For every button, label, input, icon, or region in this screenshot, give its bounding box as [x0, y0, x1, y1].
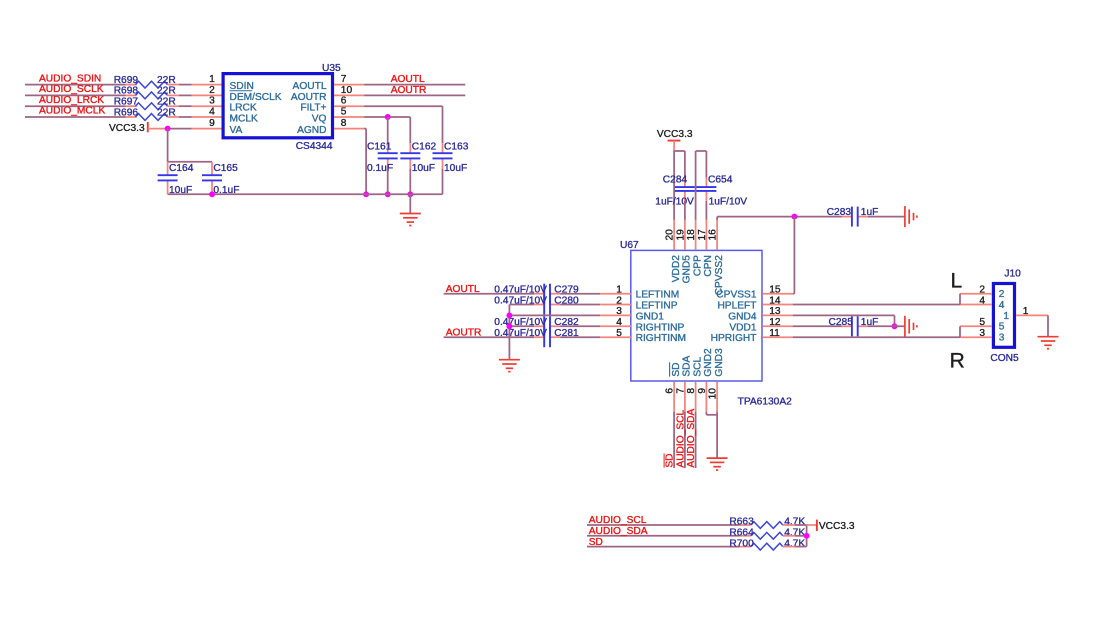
U35 value label CS4344	[296, 141, 333, 152]
svg-text:10uF: 10uF	[169, 185, 192, 196]
svg-text:0.47uF/10V: 0.47uF/10V	[494, 285, 547, 296]
svg-text:13: 13	[769, 306, 781, 317]
C279 value label	[494, 285, 547, 296]
svg-text:GND3: GND3	[714, 348, 725, 377]
svg-text:7: 7	[676, 388, 687, 394]
wire C161 to gnd bus	[387, 169, 389, 195]
capacitor C165 pins	[211, 162, 213, 195]
wire net AUDIO_SCLK	[25, 94, 137, 96]
U67 pin number 13	[769, 306, 781, 317]
resistor R700	[729, 538, 805, 550]
U67 pin name RIGHTINP	[636, 322, 685, 333]
U35 right pin 6 stub	[334, 105, 364, 107]
capacitor C285 pins	[842, 325, 868, 327]
J10 pin 4 stub	[960, 304, 992, 306]
U67 top pin 17 stub	[705, 220, 707, 250]
svg-text:0.47uF/10V: 0.47uF/10V	[494, 328, 547, 339]
wire AGND down	[364, 129, 366, 195]
capacitor C283 pins	[842, 216, 868, 218]
svg-text:0.47uF/10V: 0.47uF/10V	[494, 295, 547, 306]
U67 pin name LEFTINM	[636, 290, 680, 301]
wire to VCC tick	[807, 524, 817, 526]
wire net AUDIO_SCL (pullup)	[587, 524, 751, 526]
svg-text:AUDIO_MCLK: AUDIO_MCLK	[39, 106, 105, 117]
wire VDD1 to C285	[793, 325, 842, 327]
U35 pin number 10	[341, 85, 353, 96]
net label AOUTL	[391, 74, 425, 85]
svg-text:AUDIO_LRCK: AUDIO_LRCK	[39, 95, 104, 106]
svg-text:GND2: GND2	[703, 348, 714, 377]
svg-text:J10: J10	[1004, 268, 1021, 279]
C164 refdes label	[169, 163, 194, 174]
wire C161 hang	[387, 117, 389, 143]
junction node C162/bus	[407, 191, 413, 197]
svg-text:2: 2	[616, 295, 622, 306]
U67 pin name GND4	[728, 311, 757, 322]
capacitor C282	[544, 316, 550, 336]
C282 value label	[494, 317, 547, 328]
svg-text:AOUTL: AOUTL	[293, 81, 327, 92]
J10 inner pin 3	[999, 333, 1005, 344]
U67 SD pin overline	[669, 362, 671, 376]
U67 right pin 14 stub	[762, 304, 792, 306]
net label AOUTR	[391, 85, 427, 96]
svg-text:20: 20	[665, 229, 676, 241]
junction node R664/VCC	[804, 533, 810, 539]
capacitor C165	[202, 175, 222, 180]
wire C283 to ground	[868, 216, 905, 218]
U35 pin number 1	[209, 74, 215, 85]
wire net AUDIO_LRCK	[25, 105, 137, 107]
junction node GND4/C285	[892, 323, 898, 329]
U67 pin name CPN	[703, 255, 714, 277]
U35 pin number 5	[341, 106, 347, 117]
resistor R696	[114, 107, 176, 120]
U67 pin name VDD2	[671, 255, 682, 283]
U35 pin name VQ	[312, 113, 327, 124]
U35 pin name LRCK	[230, 103, 257, 114]
C161 refdes label	[367, 141, 392, 152]
U67 pin name GND5	[682, 255, 693, 284]
ground G5	[707, 458, 728, 470]
svg-text:0.1uF: 0.1uF	[213, 185, 239, 196]
wire VCC3.3 to U35 pin 9	[148, 128, 192, 130]
J10 pin 2 stub	[960, 293, 992, 295]
svg-text:VDD2: VDD2	[671, 255, 682, 283]
U35 right pin 10 stub	[334, 94, 364, 96]
U35 pin 4 stub	[192, 116, 222, 118]
U67 pin number 2	[616, 295, 622, 306]
U67 pin 3 stub	[600, 314, 631, 316]
capacitor C654 pins	[705, 177, 707, 201]
capacitor C280	[544, 295, 550, 315]
J10 pin number 1	[1023, 306, 1029, 317]
wire GND5 column lower	[684, 201, 686, 220]
svg-text:R700: R700	[729, 538, 754, 549]
capacitor C163 pins	[442, 143, 444, 168]
ground G6	[1038, 337, 1059, 349]
U35 right pin 8 stub	[334, 128, 364, 130]
svg-text:1uF/10V: 1uF/10V	[709, 197, 748, 208]
wire VCC stem	[673, 141, 675, 151]
svg-text:R664: R664	[729, 528, 754, 539]
U35 pin number 3	[209, 96, 215, 107]
wire VQ to C161/C162	[364, 117, 410, 143]
U67 pin name GND1	[636, 311, 665, 322]
wire R696 to U35 pin 4	[168, 116, 192, 118]
svg-text:AUDIO_SDA: AUDIO_SDA	[686, 409, 697, 468]
capacitor C285	[852, 316, 858, 336]
U35 pin number 2	[209, 85, 215, 96]
svg-text:1: 1	[209, 74, 215, 85]
wire R697 to U35 pin 3	[168, 105, 192, 107]
svg-text:R696: R696	[114, 107, 139, 118]
svg-text:VCC3.3: VCC3.3	[819, 521, 855, 532]
svg-text:10uF: 10uF	[412, 163, 435, 174]
U67 pin 2 stub	[600, 304, 631, 306]
U67 pin name HPRIGHT	[711, 333, 757, 344]
U35 pin 2 stub	[192, 94, 222, 96]
svg-text:VQ: VQ	[312, 113, 327, 124]
net SD overline (U67)	[663, 453, 665, 467]
wire R700 right	[783, 546, 807, 548]
svg-text:8: 8	[341, 118, 347, 129]
wire input gnd column	[508, 305, 510, 360]
junction node VQ/C161	[385, 114, 391, 120]
wire net AUDIO_SCL (U67)	[684, 412, 686, 468]
U35 pin 3 stub	[192, 105, 222, 107]
resistor R698	[114, 86, 176, 99]
U35 pin number 9	[209, 118, 215, 129]
svg-text:4: 4	[616, 317, 622, 328]
net label AUDIO_SDA (U67)	[686, 409, 697, 468]
svg-text:12: 12	[769, 317, 781, 328]
svg-text:R697: R697	[114, 97, 139, 108]
capacitor C284	[675, 187, 695, 191]
wire gnd col to C282	[509, 325, 534, 327]
svg-text:1uF/10V: 1uF/10V	[655, 197, 694, 208]
U67 pin number 14	[769, 295, 781, 306]
C161 value label	[367, 163, 393, 174]
U35 pin name FILT+	[300, 103, 326, 114]
svg-text:RIGHTINP: RIGHTINP	[636, 322, 685, 333]
capacitor C162	[400, 153, 420, 158]
U35 pin name MCLK	[230, 113, 259, 124]
svg-text:LRCK: LRCK	[230, 103, 257, 114]
U35 pin number 8	[341, 118, 347, 129]
wire HPRIGHT to J10	[793, 336, 960, 338]
svg-text:LEFTINP: LEFTINP	[636, 301, 678, 312]
U67 right pin 12 stub	[762, 325, 792, 327]
svg-text:U67: U67	[620, 240, 639, 251]
C165 value label	[213, 185, 239, 196]
U67 pin number 15	[769, 285, 781, 296]
wire C282 to U67	[560, 325, 600, 327]
wire C164-C165 top link	[168, 161, 212, 163]
U67 top pin 20 stub	[673, 220, 675, 250]
wire C162 to gnd bus	[409, 169, 411, 195]
U67 pin name HPLEFT	[717, 301, 756, 312]
U67 bottom pin 6 stub	[673, 382, 675, 412]
svg-text:C163: C163	[444, 141, 469, 152]
wire R jog	[959, 326, 961, 337]
U67 top pin 19 stub	[684, 220, 686, 250]
svg-text:4.7K: 4.7K	[784, 528, 805, 539]
U35 pin name AOUTL	[293, 81, 327, 92]
resistor R697	[114, 97, 176, 110]
wire pin1 to ground	[1047, 315, 1049, 336]
U67 pin 5 stub	[600, 336, 631, 338]
svg-text:C285: C285	[829, 317, 854, 328]
capacitor C164	[158, 175, 178, 180]
wire CPP column	[695, 151, 697, 220]
svg-text:C284: C284	[663, 175, 688, 186]
U67 pin number 4	[616, 317, 622, 328]
ground G4	[905, 316, 917, 337]
U67 pin number 7	[676, 388, 687, 394]
power VCC3.3 label (U67)	[657, 129, 693, 140]
J10 value label CON5	[990, 353, 1019, 364]
ground G1	[400, 214, 421, 226]
wire VCC to C164	[167, 129, 169, 162]
J10 refdes label	[1004, 268, 1021, 279]
U67 bottom pin 10 stub	[716, 382, 718, 412]
svg-text:16: 16	[708, 229, 719, 241]
wire VDD2 column	[673, 151, 675, 220]
U67 pin number 17	[697, 229, 708, 241]
wire CPP-CPN link	[696, 150, 707, 152]
svg-text:C165: C165	[213, 163, 238, 174]
svg-text:4: 4	[979, 295, 985, 306]
capacitor C281 pins	[534, 336, 560, 338]
svg-text:CPVSS1: CPVSS1	[716, 290, 757, 301]
svg-text:2: 2	[209, 85, 215, 96]
U67 value label TPA6130A2	[738, 397, 793, 408]
capacitor C279 pins	[534, 293, 560, 295]
capacitor C161 pins	[387, 143, 389, 168]
op-amp U35 CS4344 body	[223, 74, 332, 138]
capacitor C282 pins	[534, 325, 560, 327]
wire HPLEFT to J10	[793, 304, 960, 306]
wire C279 to U67	[560, 293, 600, 295]
wire GND4	[793, 315, 895, 326]
U67 top pin 18 stub	[695, 220, 697, 250]
U67 pin number 19	[676, 229, 687, 241]
net label AUDIO_SCLK	[39, 84, 104, 95]
svg-text:1: 1	[616, 285, 622, 296]
U35 SDIN underline	[230, 90, 253, 92]
svg-text:AUDIO_SCLK: AUDIO_SCLK	[39, 84, 104, 95]
U67 pin number 6	[665, 388, 676, 394]
net label AUDIO_SDIN	[39, 73, 101, 84]
wire CPN column lower	[705, 201, 707, 220]
svg-text:AOUTR: AOUTR	[391, 85, 427, 96]
U35 pin number 6	[341, 96, 347, 107]
net label AOUTR (U67)	[446, 328, 482, 339]
svg-text:HPRIGHT: HPRIGHT	[711, 333, 757, 344]
net label AUDIO_LRCK	[39, 95, 104, 106]
U35 pin name SDIN	[230, 81, 254, 92]
U35 refdes label	[322, 63, 341, 74]
svg-text:15: 15	[769, 285, 781, 296]
U35 right pin 7 stub	[334, 84, 364, 86]
U67 pin name CPP	[692, 255, 703, 276]
capacitor C279	[544, 284, 550, 304]
svg-text:10: 10	[708, 388, 719, 400]
U67 right pin 15 stub	[762, 293, 792, 295]
svg-text:5: 5	[999, 322, 1005, 333]
svg-text:C164: C164	[169, 163, 194, 174]
junction node VCC3.3/C164	[165, 126, 171, 132]
wire net SD (pullup)	[587, 546, 751, 548]
U67 pin number 12	[769, 317, 781, 328]
svg-text:3: 3	[999, 333, 1005, 344]
wire C285 to ground	[868, 325, 905, 327]
svg-text:9: 9	[697, 388, 708, 394]
svg-text:6: 6	[665, 388, 676, 394]
svg-text:AUDIO_SCL: AUDIO_SCL	[676, 410, 687, 468]
wire net SD (U67)	[673, 412, 675, 468]
U67 bottom pin 9 stub	[705, 382, 707, 412]
U67 refdes label	[620, 240, 639, 251]
capacitor C284 pins	[684, 177, 686, 201]
svg-text:11: 11	[769, 328, 780, 339]
svg-text:7: 7	[341, 74, 347, 85]
capacitor C281	[544, 327, 550, 347]
resistor R663	[729, 517, 805, 529]
U67 pin 1 stub	[600, 293, 631, 295]
C282 refdes label	[554, 317, 579, 328]
svg-text:SD: SD	[589, 537, 603, 548]
C283 refdes label	[827, 207, 852, 218]
power VCC3.3 tick (U67)	[668, 140, 681, 142]
svg-text:AOUTR: AOUTR	[291, 92, 327, 103]
U67 pin number 9	[697, 388, 708, 394]
wire AOUTR out	[364, 94, 465, 96]
J10 pin 5 stub	[960, 325, 992, 327]
svg-text:3: 3	[979, 328, 985, 339]
svg-text:C161: C161	[367, 141, 392, 152]
wire GND5 column upper	[684, 151, 686, 177]
svg-text:10uF: 10uF	[444, 163, 467, 174]
wire AOUTL out	[364, 84, 465, 86]
U67 pin name CPVSS2	[714, 255, 725, 296]
capacitor C654	[696, 187, 716, 191]
wire C163 to gnd bus	[442, 169, 444, 195]
svg-text:2: 2	[999, 289, 1005, 300]
wire R698 to U35 pin 2	[168, 94, 192, 96]
J10 pin 1 stub	[1016, 314, 1048, 316]
svg-text:C283: C283	[827, 207, 852, 218]
U67 pin number 20	[665, 229, 676, 241]
U67 pin name GND2	[703, 348, 714, 377]
wire CPVSS1 drop	[793, 217, 795, 294]
capacitor C163	[433, 153, 453, 158]
svg-text:4.7K: 4.7K	[784, 538, 805, 549]
U67 pin number 18	[686, 229, 697, 241]
wire AOUTL row	[444, 293, 535, 295]
net label AUDIO_SCL (pullup)	[589, 515, 647, 526]
wire L jog	[959, 294, 961, 305]
C654 refdes label	[708, 175, 733, 186]
resistor R699	[114, 75, 176, 88]
wire GND2 jog	[706, 412, 717, 415]
svg-text:3: 3	[209, 96, 215, 107]
svg-text:2: 2	[979, 285, 985, 296]
C285 refdes label	[829, 317, 854, 328]
svg-text:AUDIO_SDA: AUDIO_SDA	[589, 526, 648, 537]
capacitor C164 pins	[167, 162, 169, 195]
C165 refdes label	[213, 163, 238, 174]
svg-text:SCL: SCL	[692, 356, 703, 376]
svg-text:SD: SD	[671, 362, 682, 376]
net label SD (pullup)	[589, 537, 603, 548]
wire CPVSS2 net	[717, 217, 842, 220]
wire net AUDIO_SDIN	[25, 84, 137, 86]
svg-text:R663: R663	[729, 517, 754, 528]
svg-text:AUDIO_SDIN: AUDIO_SDIN	[39, 73, 101, 84]
label L	[951, 270, 963, 293]
wire gnd col to C280	[509, 304, 534, 306]
junction node AGND/bus	[363, 191, 369, 197]
U35 pin name DEM/SCLK	[230, 92, 282, 103]
U67 bottom pin 7 stub	[684, 382, 686, 412]
net label SD (U67)	[665, 453, 676, 467]
ground G3	[499, 360, 520, 372]
wire GND3 down	[716, 412, 718, 458]
wire VCC branch	[674, 150, 685, 152]
svg-text:GND4: GND4	[728, 311, 757, 322]
op-amp U67 TPA6130A2 body	[631, 250, 762, 381]
C285 value label	[861, 317, 879, 328]
svg-text:4.7K: 4.7K	[784, 517, 805, 528]
J10 pin number 2	[979, 285, 985, 296]
svg-text:5: 5	[616, 328, 622, 339]
ground G2	[905, 206, 917, 227]
svg-text:CS4344: CS4344	[296, 141, 333, 152]
junction node C165/bus	[209, 191, 215, 197]
svg-text:GND5: GND5	[682, 255, 693, 284]
wire FILT+ to C163	[364, 106, 442, 143]
U67 right pin 13 stub	[762, 314, 792, 316]
C281 refdes label	[554, 328, 579, 339]
U67 bottom pin 8 stub	[695, 382, 697, 412]
U35 pin name VA	[230, 125, 243, 136]
wire net AUDIO_MCLK	[25, 116, 137, 118]
svg-text:14: 14	[769, 295, 781, 306]
U35 pin name AOUTR	[291, 92, 327, 103]
wire GND1 row	[509, 314, 600, 316]
svg-text:R698: R698	[114, 86, 139, 97]
svg-text:4: 4	[999, 300, 1005, 311]
svg-text:R: R	[950, 349, 965, 372]
J10 pin number 3	[979, 328, 985, 339]
wire net AUDIO_SDA (pullup)	[587, 535, 751, 537]
svg-text:10: 10	[341, 85, 353, 96]
wire R699 to U35 pin 1	[168, 84, 192, 86]
wire CPN column upper	[705, 151, 707, 177]
wire C281 to U67	[560, 336, 600, 338]
svg-text:SDA: SDA	[682, 355, 693, 376]
C280 refdes label	[554, 295, 579, 306]
svg-text:AGND: AGND	[297, 125, 326, 136]
U67 pin name SD	[671, 362, 682, 376]
U67 pin number 1	[616, 285, 622, 296]
svg-text:CPN: CPN	[703, 255, 714, 277]
J10 pin number 4	[979, 295, 985, 306]
svg-text:AUDIO_SCL: AUDIO_SCL	[589, 515, 647, 526]
svg-text:L: L	[951, 270, 963, 293]
